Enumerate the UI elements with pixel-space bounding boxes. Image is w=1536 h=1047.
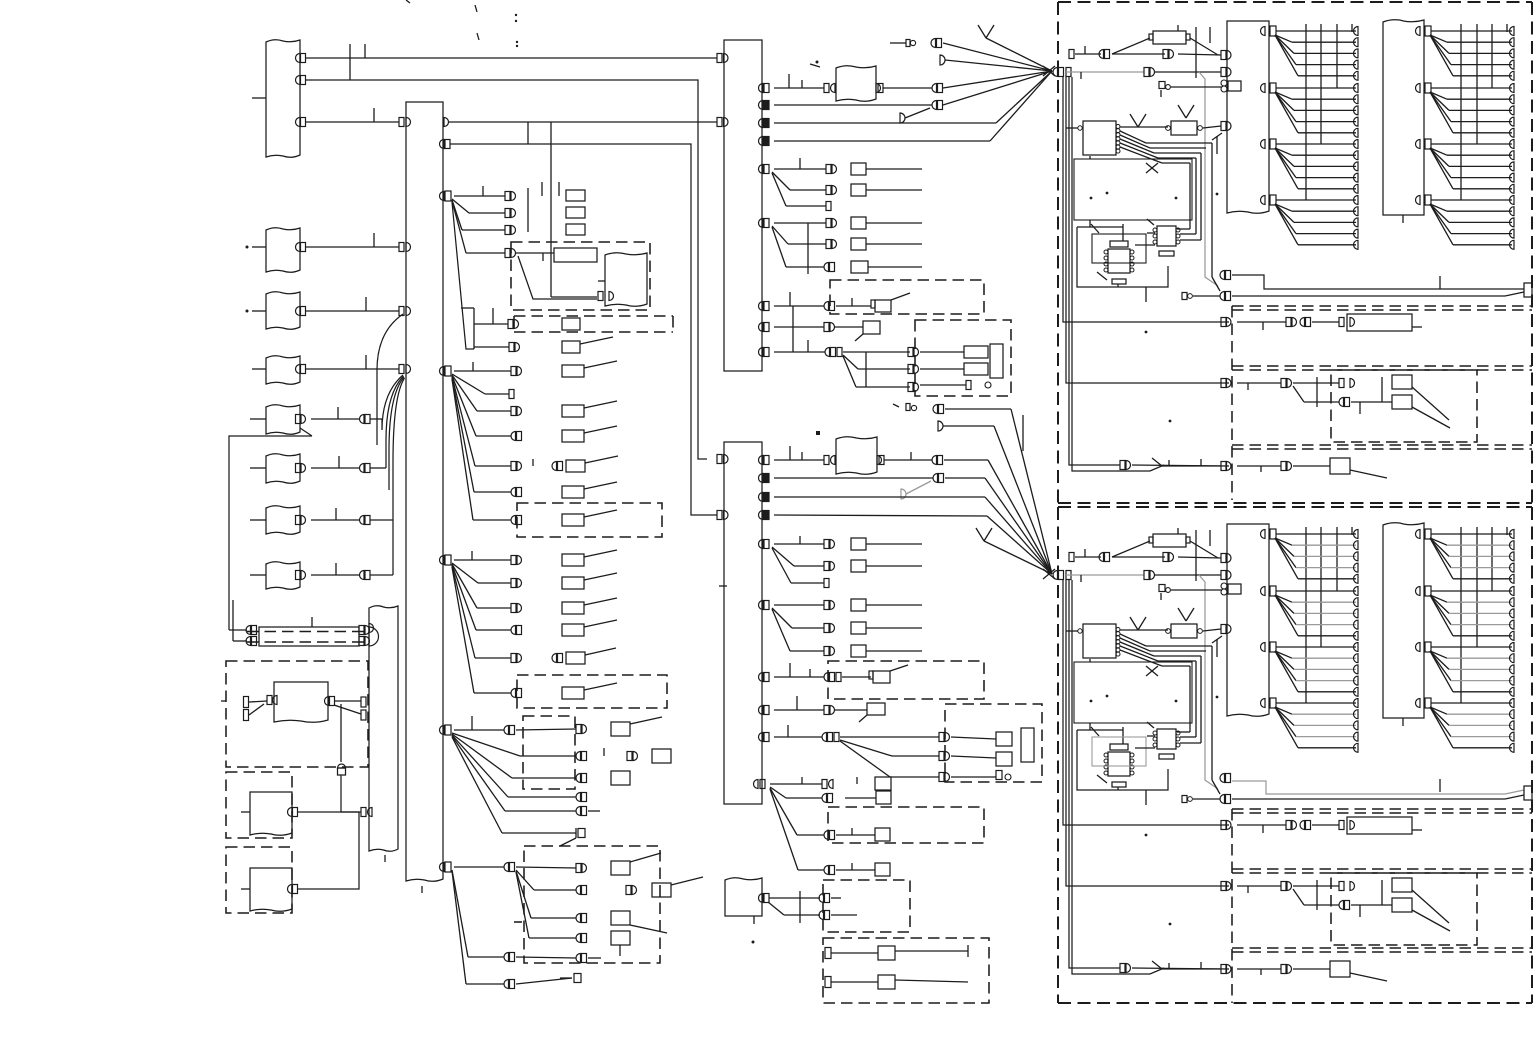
bus3 row y677 — [759, 673, 764, 682]
dashed box D-M around y520 — [517, 503, 662, 537]
module at y562 — [266, 562, 300, 590]
resistor top — [1153, 31, 1186, 44]
bus 2R — [1383, 523, 1424, 718]
dashed box D6 — [517, 675, 667, 708]
bus1 tall rectangle — [406, 102, 443, 881]
cluster wiring — [1091, 224, 1099, 233]
battery symbol — [338, 764, 346, 768]
dashed box D13 — [823, 880, 910, 932]
module M1 (top-left ECU) — [266, 40, 300, 158]
module at y405 — [266, 405, 300, 435]
dashed sub-boxes right — [1232, 808, 1532, 810]
wire module y247 to bus1 — [306, 246, 399, 248]
big dashed box 2 — [1058, 506, 1532, 508]
bus1 fan 5 (y867) — [440, 863, 445, 872]
bus3 bottom fan — [754, 780, 759, 789]
dashed box D1 — [226, 661, 368, 767]
bus2 fan y169 — [759, 165, 764, 174]
dashed box D14 rows — [823, 938, 989, 1003]
module-5 corner path down-left — [300, 428, 312, 436]
dashed sub-boxes right — [1232, 305, 1532, 307]
bus2 fan y352 — [759, 348, 764, 357]
row 322 — [1221, 821, 1226, 830]
bus2 fan y223 — [759, 219, 764, 228]
bus1 fan 1 (y196) — [440, 192, 445, 201]
lower IC cluster — [1157, 226, 1176, 246]
module at y292 — [266, 292, 300, 330]
resistor 2 — [1171, 121, 1197, 135]
converging wires to fan-in 1 — [943, 43, 1052, 71]
long connector strip y627 — [259, 627, 359, 646]
bus2 row y327 — [759, 323, 764, 332]
bus1 fan 3 (y560) — [440, 556, 445, 565]
bundle from fan-in — [1063, 77, 1229, 322]
right block at dy=503 — [1069, 553, 1074, 562]
module at y228 — [266, 228, 300, 273]
long box in D5 — [554, 248, 597, 262]
bus3 right rows top group — [759, 456, 764, 465]
bus2 tall rectangle — [724, 40, 762, 371]
bus1 fan 4 (y730) — [440, 726, 445, 735]
resistor 2 — [1171, 624, 1197, 638]
bus2 row y306 — [759, 302, 764, 311]
V symbol 2 — [976, 528, 984, 541]
wire M1 pin2 down middle — [306, 80, 707, 459]
module at y454 — [266, 454, 300, 484]
bus3 fan y544 — [759, 540, 764, 549]
rows 383/402 — [1221, 882, 1226, 891]
IC fan-out bundle — [1120, 131, 1146, 143]
dashed box D3 — [226, 847, 292, 913]
converging wires to fan-in 2 — [944, 459, 988, 461]
D1 wires to bus4 — [334, 700, 361, 702]
riser to fan-in A — [377, 314, 403, 445]
module in D3 — [250, 868, 292, 911]
module at y356 — [266, 356, 300, 385]
tall connector strip bus4 — [369, 606, 398, 852]
dashed box D10 + relay cluster 1 — [915, 320, 1011, 396]
inner module box — [1074, 159, 1192, 220]
stray plot marks top — [406, 0, 410, 3]
IC fan-out bundle — [1120, 634, 1146, 646]
lower IC cluster — [1157, 729, 1176, 749]
dashed box D15 — [828, 807, 984, 843]
bus 2R — [1383, 20, 1424, 215]
pin into bus4 — [361, 808, 366, 817]
dashed box D7 — [523, 716, 575, 789]
dashed box D8 — [524, 846, 660, 963]
bus 1R — [1227, 21, 1269, 213]
bus3 row y710 — [759, 706, 764, 715]
fan1 long rows y324,y347 — [452, 202, 474, 349]
big dashed box 1 — [1058, 1, 1532, 3]
bus 1R — [1227, 524, 1269, 716]
bus2 right pins and rows — [759, 84, 764, 93]
module2 wavy-top near bus3 bottom — [725, 878, 762, 916]
bus1 right pin y144 wire — [440, 140, 445, 149]
long wire rows — [1220, 774, 1225, 783]
dashed box D5 — [511, 242, 650, 310]
module at y506 — [266, 506, 300, 535]
bus3 fan y737 relay rows — [759, 733, 764, 742]
chain y409 — [893, 404, 899, 407]
D y60 — [940, 55, 945, 65]
wire module y369 to bus1 fan-in B — [306, 368, 399, 370]
IC U1 — [1083, 624, 1116, 658]
sub-fan from pair y867 — [516, 870, 534, 890]
resistor top — [1153, 534, 1186, 547]
bus3 fan y605 — [759, 601, 764, 610]
wire module y311 to bus1 fan-in A — [306, 310, 399, 312]
module in D5 — [605, 253, 647, 307]
IC U1 — [1083, 121, 1116, 155]
inner module box — [1074, 662, 1192, 723]
cluster wiring — [1091, 727, 1099, 736]
wire M1 pin1 to bus2 — [306, 57, 717, 59]
bus3 tall rectangle — [724, 442, 762, 804]
right block at dy=0 — [1069, 50, 1074, 59]
dashed box D11 + relay cluster 2 — [945, 704, 1042, 782]
bundle from fan-in — [1063, 580, 1229, 825]
module in D2 — [250, 792, 292, 835]
module in D1 — [274, 682, 328, 722]
wire M1 pin3 through bus1 to bus2 — [306, 121, 399, 123]
row 322 — [1221, 318, 1226, 327]
long wire rows — [1220, 271, 1225, 280]
fan-in 1 connector — [1043, 66, 1055, 76]
module y460 — [836, 437, 877, 475]
riser bundle to fan-in B — [382, 375, 403, 430]
bus1 fan 2 (y371) — [440, 367, 445, 376]
dashed box D12 — [828, 661, 984, 699]
dashed box D9 — [830, 280, 984, 314]
module y88 — [836, 66, 876, 102]
row 466 — [1221, 965, 1226, 974]
V symbol top — [978, 25, 986, 38]
row 466 — [1221, 462, 1226, 471]
rows 383/402 — [1221, 379, 1226, 388]
dashed box D2 — [226, 772, 292, 838]
fan-in 2 connector — [1043, 569, 1055, 579]
top chain y43 — [890, 42, 906, 44]
